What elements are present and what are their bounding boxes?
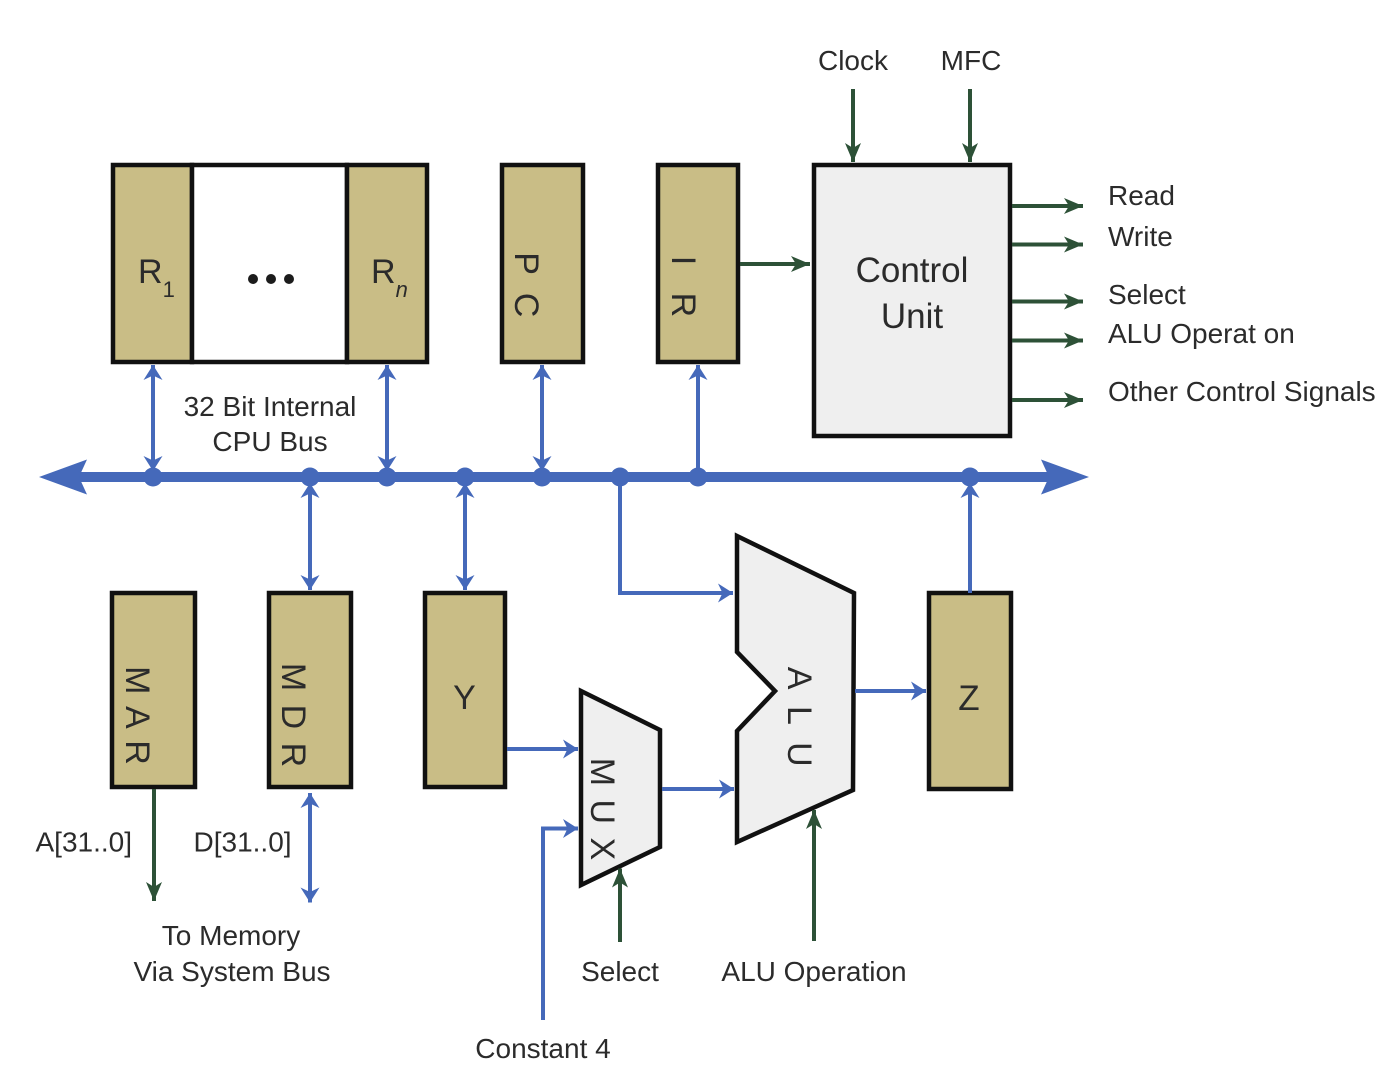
wire control output Other Control Signals xyxy=(1012,398,1083,402)
register MAR xyxy=(112,593,195,787)
wire MDR to memory data xyxy=(308,793,312,903)
svg-text:ALU Operat on: ALU Operat on xyxy=(1108,318,1295,349)
wire bus branch to ALU input xyxy=(620,477,733,593)
control unit xyxy=(814,165,1010,436)
svg-text:Control: Control xyxy=(856,251,969,290)
svg-text:Y: Y xyxy=(453,679,476,717)
mux MUX xyxy=(581,691,660,885)
svg-text:Z: Z xyxy=(958,679,979,718)
wire R1 to bus xyxy=(151,365,155,471)
node junction Rn xyxy=(378,468,397,487)
register MDR xyxy=(269,593,351,787)
svg-text:Write: Write xyxy=(1108,221,1173,252)
svg-text:M A R: M A R xyxy=(118,666,156,767)
svg-text:Constant 4: Constant 4 xyxy=(475,1033,610,1064)
register IR xyxy=(658,165,738,362)
svg-text:M D R: M D R xyxy=(274,663,312,769)
wire Rn to bus xyxy=(385,365,389,471)
register Y xyxy=(425,593,505,787)
wire Select to MUX xyxy=(618,869,622,943)
wire MAR to memory address xyxy=(152,789,156,901)
svg-text:Clock: Clock xyxy=(818,45,889,76)
wire ALU to Z xyxy=(855,689,926,693)
svg-text:To Memory: To Memory xyxy=(162,920,300,951)
wire bus to MDR xyxy=(308,483,312,590)
register PC xyxy=(502,165,583,362)
svg-text:MFC: MFC xyxy=(941,45,1002,76)
node junction R1 xyxy=(144,468,163,487)
node junction MDR xyxy=(301,468,320,487)
svg-text:A[31..0]: A[31..0] xyxy=(35,827,132,858)
wire control output Read xyxy=(1012,204,1083,208)
node junction Y xyxy=(456,468,475,487)
alu ALU xyxy=(737,536,854,842)
register file box R1..Rn xyxy=(113,165,427,362)
wire bus to IR xyxy=(696,365,700,477)
svg-text:D[31..0]: D[31..0] xyxy=(194,827,292,858)
svg-text:Select: Select xyxy=(581,956,659,987)
wire Clock input xyxy=(851,89,855,162)
svg-text:CPU Bus: CPU Bus xyxy=(212,426,327,457)
wire ALU Operation to ALU xyxy=(812,810,816,941)
dots ellipsis xyxy=(248,274,294,284)
svg-text:ALU Operation: ALU Operation xyxy=(721,956,906,987)
svg-text:M U X: M U X xyxy=(583,758,621,862)
wire PC to bus xyxy=(540,365,544,471)
svg-text:I R: I R xyxy=(664,256,702,326)
svg-text:Unit: Unit xyxy=(881,297,944,336)
svg-text:Select: Select xyxy=(1108,279,1186,310)
wire bus to Y xyxy=(463,483,467,590)
wire IR to control unit xyxy=(740,262,810,266)
node junction PC xyxy=(533,468,552,487)
wire Constant 4 to MUX xyxy=(543,829,578,1021)
svg-text:A L U: A L U xyxy=(780,667,818,771)
wire control output Write xyxy=(1012,243,1083,247)
node junction Z xyxy=(961,468,980,487)
register Z xyxy=(929,593,1011,789)
node junction IR xyxy=(689,468,708,487)
svg-text:Other Control Signals: Other Control Signals xyxy=(1108,376,1376,407)
wire Z to bus xyxy=(968,483,972,593)
wire Y to MUX xyxy=(507,747,578,751)
wire MUX to ALU xyxy=(662,787,734,791)
svg-text:Read: Read xyxy=(1108,180,1175,211)
wire control output ALU Operation xyxy=(1012,339,1083,343)
node junction ALU branch xyxy=(611,468,630,487)
svg-text:P C: P C xyxy=(507,252,545,322)
bus 32-bit internal CPU bus xyxy=(39,460,1089,495)
wire MFC input xyxy=(968,89,972,162)
svg-text:32 Bit Internal: 32 Bit Internal xyxy=(184,391,357,422)
svg-text:Via System Bus: Via System Bus xyxy=(133,956,330,987)
wire control output Select xyxy=(1012,300,1083,304)
